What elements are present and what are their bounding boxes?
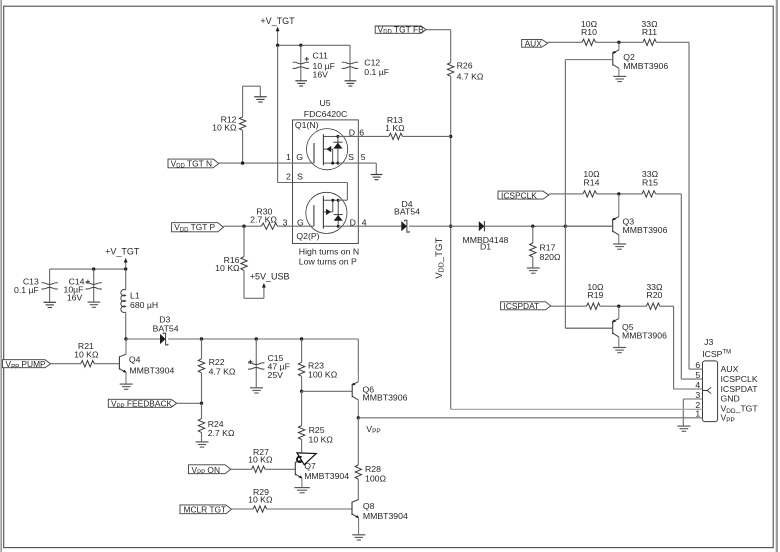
svg-text:1 KΩ: 1 KΩ bbox=[385, 123, 405, 133]
svg-text:U5: U5 bbox=[320, 98, 331, 108]
svg-text:680 µH: 680 µH bbox=[130, 300, 158, 310]
svg-text:1: 1 bbox=[695, 409, 700, 419]
svg-text:16V: 16V bbox=[67, 292, 83, 302]
svg-text:MMBT3904: MMBT3904 bbox=[129, 366, 174, 376]
svg-text:ICSPDAT: ICSPDAT bbox=[504, 301, 540, 311]
svg-text:Q4: Q4 bbox=[129, 355, 141, 365]
svg-text:C11: C11 bbox=[313, 51, 328, 61]
svg-text:+5V_USB: +5V_USB bbox=[250, 272, 290, 282]
svg-text:G: G bbox=[296, 152, 303, 162]
svg-text:10 KΩ: 10 KΩ bbox=[248, 495, 273, 505]
svg-text:820Ω: 820Ω bbox=[540, 252, 561, 262]
svg-text:FDC6420C: FDC6420C bbox=[304, 109, 347, 119]
svg-text:4.7 KΩ: 4.7 KΩ bbox=[209, 366, 236, 376]
svg-text:2: 2 bbox=[286, 172, 291, 182]
svg-text:ICSPCLK: ICSPCLK bbox=[501, 190, 537, 200]
svg-text:10 KΩ: 10 KΩ bbox=[74, 350, 99, 360]
svg-text:6: 6 bbox=[695, 360, 700, 370]
svg-text:R11: R11 bbox=[642, 27, 657, 37]
svg-text:100Ω: 100Ω bbox=[365, 474, 386, 484]
svg-text:BAT54: BAT54 bbox=[153, 323, 179, 333]
svg-text:10 KΩ: 10 KΩ bbox=[212, 122, 237, 132]
svg-text:MMBT3906: MMBT3906 bbox=[623, 61, 668, 71]
svg-text:D1: D1 bbox=[480, 241, 491, 251]
svg-text:1: 1 bbox=[286, 152, 291, 162]
svg-text:L1: L1 bbox=[130, 290, 140, 300]
svg-text:Low turns on P: Low turns on P bbox=[299, 256, 357, 266]
svg-text:GND: GND bbox=[721, 394, 740, 404]
svg-text:VPP ON: VPP ON bbox=[192, 465, 221, 476]
svg-text:ICSPDAT: ICSPDAT bbox=[721, 384, 759, 394]
svg-text:R28: R28 bbox=[365, 464, 381, 474]
svg-text:Q8: Q8 bbox=[363, 501, 375, 511]
svg-text:0.1 µF: 0.1 µF bbox=[364, 67, 389, 77]
svg-text:10 KΩ: 10 KΩ bbox=[215, 263, 240, 273]
svg-text:100 KΩ: 100 KΩ bbox=[308, 369, 338, 379]
svg-text:4: 4 bbox=[695, 380, 700, 390]
svg-text:+V_TGT: +V_TGT bbox=[105, 247, 140, 257]
svg-text:+V_TGT: +V_TGT bbox=[260, 16, 295, 26]
svg-text:MMBT3904: MMBT3904 bbox=[304, 471, 349, 481]
svg-text:AUX: AUX bbox=[721, 364, 739, 374]
svg-text:MMBT3906: MMBT3906 bbox=[363, 393, 408, 403]
svg-text:5: 5 bbox=[695, 370, 700, 380]
svg-text:10 KΩ: 10 KΩ bbox=[248, 454, 273, 464]
svg-text:2.7 KΩ: 2.7 KΩ bbox=[250, 214, 277, 224]
svg-text:Q2(P): Q2(P) bbox=[296, 231, 319, 241]
svg-text:R26: R26 bbox=[457, 61, 473, 71]
svg-text:J3: J3 bbox=[704, 337, 713, 347]
svg-text:4.7 KΩ: 4.7 KΩ bbox=[457, 72, 484, 82]
svg-text:R15: R15 bbox=[642, 177, 658, 187]
svg-text:BAT54: BAT54 bbox=[394, 206, 420, 216]
svg-text:S: S bbox=[348, 152, 354, 162]
svg-text:10 KΩ: 10 KΩ bbox=[309, 434, 334, 444]
svg-text:VDD_TGT: VDD_TGT bbox=[434, 238, 446, 279]
svg-text:MCLR TGT: MCLR TGT bbox=[184, 505, 227, 515]
svg-text:S: S bbox=[297, 172, 303, 182]
svg-text:3: 3 bbox=[695, 390, 700, 400]
svg-text:25V: 25V bbox=[268, 370, 284, 380]
svg-text:MMBT3906: MMBT3906 bbox=[623, 225, 668, 235]
svg-text:AUX: AUX bbox=[525, 38, 543, 48]
svg-text:R25: R25 bbox=[309, 425, 325, 435]
svg-text:5: 5 bbox=[361, 152, 366, 162]
svg-text:MMBT3904: MMBT3904 bbox=[363, 511, 408, 521]
svg-text:2.7 KΩ: 2.7 KΩ bbox=[208, 428, 235, 438]
svg-text:R14: R14 bbox=[584, 177, 600, 187]
svg-text:R20: R20 bbox=[646, 290, 662, 300]
svg-text:MMBT3906: MMBT3906 bbox=[622, 331, 667, 341]
svg-text:Q1(N): Q1(N) bbox=[295, 120, 319, 130]
svg-text:High turns on N: High turns on N bbox=[299, 246, 359, 256]
svg-text:R10: R10 bbox=[581, 27, 597, 37]
svg-text:R19: R19 bbox=[587, 290, 603, 300]
svg-text:0.1 µF: 0.1 µF bbox=[14, 285, 39, 295]
svg-text:16V: 16V bbox=[313, 70, 329, 80]
svg-text:ICSPCLK: ICSPCLK bbox=[721, 374, 758, 384]
